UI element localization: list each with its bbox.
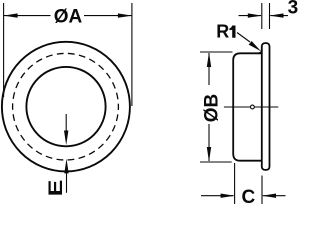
R1 leader arrow: [237, 33, 250, 43]
svg-text:ØA: ØA: [54, 7, 83, 28]
dimension C extension line left: [234, 163, 236, 204]
center hole circle: [251, 105, 255, 109]
dimension C extension line right: [261, 176, 263, 205]
svg-text:E: E: [44, 179, 66, 196]
dimension ØA line right segment: [84, 15, 132, 17]
svg-text:C: C: [242, 187, 256, 206]
dimension 3 line left with arrow: [239, 15, 262, 17]
centerline: [224, 106, 278, 108]
dimension E down arrow (to hole edge): [65, 114, 67, 132]
dimension C line left with arrow: [201, 195, 234, 197]
dimension ØB line upper with arrow: [208, 53, 210, 85]
dimension 3 extension line left: [261, 3, 263, 29]
dimension 3 line right with arrow: [270, 15, 288, 17]
dimension C line right with arrow: [263, 195, 286, 197]
dimension ØA arrow right: [118, 13, 132, 17]
dimension ØA line left segment: [4, 15, 51, 17]
inner circle (recess hole): [26, 67, 105, 146]
dimension ØA extension line right: [131, 3, 133, 106]
fillet R1 at cup/flange top junction: [259, 50, 262, 53]
dimension ØB extension line bottom: [200, 161, 232, 163]
side view flange outline: [262, 43, 270, 170]
side view cup body outline: [233, 53, 261, 160]
svg-text:R: R: [216, 22, 229, 42]
svg-text:3: 3: [288, 0, 299, 19]
dimension ØB extension line top: [200, 51, 233, 53]
dimension ØB line lower with arrow: [208, 124, 210, 161]
dashed circle (hidden body outline): [13, 53, 119, 160]
svg-text:ØB: ØB: [201, 94, 222, 123]
outer circle (flange rim, front view): [2, 42, 130, 172]
dimension ØA extension line left: [3, 3, 5, 97]
dimension E up arrow (to body edge): [66, 172, 68, 193]
dimension 3 extension line right: [269, 3, 271, 29]
dimension ØA arrow left: [4, 13, 18, 17]
